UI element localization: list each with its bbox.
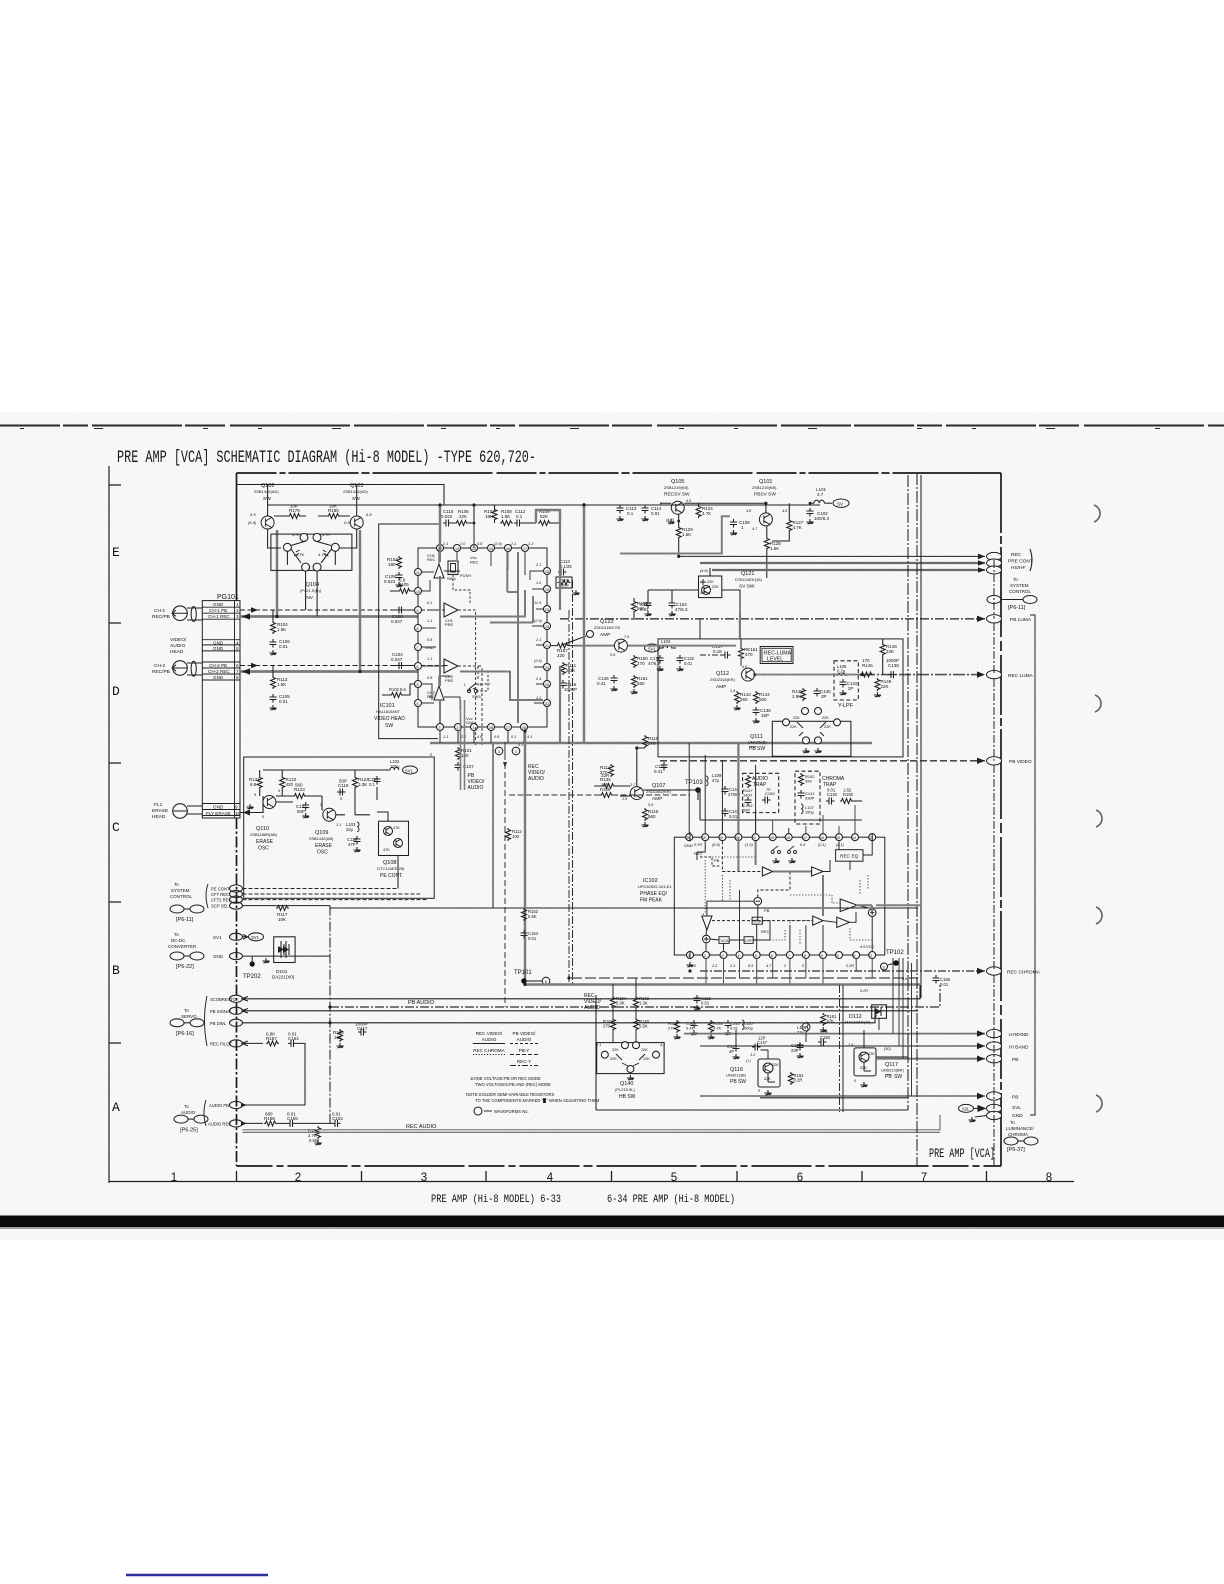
svg-text:3: 3 bbox=[439, 726, 441, 730]
svg-text:19: 19 bbox=[770, 836, 774, 840]
svg-text:CONTROL: CONTROL bbox=[170, 894, 192, 899]
svg-text:1.9: 1.9 bbox=[730, 689, 736, 693]
wire erase internals bbox=[263, 787, 388, 821]
svg-text:2SB1442(AB): 2SB1442(AB) bbox=[309, 836, 334, 841]
svg-text:CFT REC: CFT REC bbox=[211, 892, 229, 897]
transistor Q109 bbox=[309, 808, 336, 855]
head CH-1 input bbox=[152, 606, 202, 622]
amp tri 5 bbox=[837, 917, 850, 927]
svg-text:0.01: 0.01 bbox=[288, 1032, 297, 1037]
svg-text:(+): (+) bbox=[746, 1059, 751, 1063]
svg-text:4.7: 4.7 bbox=[817, 492, 824, 497]
svg-text:4.1: 4.1 bbox=[660, 1043, 665, 1047]
transistor Q116 FET bbox=[726, 1059, 780, 1095]
svg-text:PRE: PRE bbox=[445, 678, 454, 683]
svg-text:UMH9N(B): UMH9N(B) bbox=[748, 741, 767, 745]
resistor R121 bbox=[249, 770, 262, 796]
svg-text:680: 680 bbox=[265, 1112, 273, 1117]
wire REC CHROMA bbox=[700, 970, 985, 972]
svg-text:CH-2 PB: CH-2 PB bbox=[209, 663, 227, 668]
resistor R145 bbox=[792, 688, 806, 701]
svg-text:1.9: 1.9 bbox=[848, 1043, 854, 1047]
svg-text:ERASE: ERASE bbox=[315, 843, 333, 849]
svg-text:(2.9): (2.9) bbox=[494, 542, 503, 546]
svg-text:0.01: 0.01 bbox=[730, 1026, 739, 1031]
wire Q117 to PB term bbox=[876, 1046, 908, 1057]
wire rec audio long bbox=[243, 1115, 941, 1130]
svg-text:SV1: SV1 bbox=[251, 935, 260, 940]
block frame luma bbox=[658, 639, 903, 757]
svg-text:[P6-25]: [P6-25] bbox=[180, 1128, 198, 1134]
svg-text:18: 18 bbox=[786, 836, 790, 840]
svg-text:[P6-11]: [P6-11] bbox=[1008, 605, 1026, 611]
svg-text:3: 3 bbox=[498, 750, 500, 754]
wire gray Q112 to YLPF bbox=[755, 674, 860, 676]
terminal 49 bbox=[230, 995, 243, 1002]
svg-text:REC CHROMA: REC CHROMA bbox=[473, 1048, 505, 1053]
svg-text:R150: R150 bbox=[843, 792, 854, 797]
wire gray top right elbow bbox=[620, 516, 730, 553]
svg-text:470: 470 bbox=[745, 652, 753, 657]
terminal SVL mid bbox=[645, 639, 677, 652]
binding marks bbox=[1094, 505, 1102, 1112]
svg-text:6: 6 bbox=[797, 1172, 803, 1184]
amp tri 3 bbox=[813, 916, 823, 925]
svg-text:9: 9 bbox=[235, 805, 238, 810]
svg-text:3.3: 3.3 bbox=[730, 964, 736, 968]
node sum 3 bbox=[868, 909, 876, 917]
svg-text:C140: C140 bbox=[827, 792, 838, 797]
capacitor C137 bbox=[700, 644, 731, 659]
svg-text:A: A bbox=[112, 1100, 120, 1115]
svg-text:22K: 22K bbox=[886, 649, 894, 654]
svg-text:22K: 22K bbox=[707, 580, 714, 584]
svg-text:4.9: 4.9 bbox=[860, 945, 866, 949]
terminal 15 bbox=[230, 885, 243, 892]
svg-text:4: 4 bbox=[547, 1172, 554, 1184]
svg-text:560: 560 bbox=[759, 697, 767, 702]
connector PG101 bbox=[202, 594, 240, 818]
svg-text:SYSTEM: SYSTEM bbox=[171, 888, 190, 893]
svg-text:1.0: 1.0 bbox=[536, 581, 542, 585]
svg-text:SVL: SVL bbox=[1012, 1105, 1021, 1111]
wire trap block bottom bbox=[700, 790, 862, 820]
svg-text:3.7: 3.7 bbox=[630, 783, 636, 787]
amp tri 2 bbox=[812, 867, 823, 876]
svg-text:0.2R: 0.2R bbox=[846, 964, 854, 968]
svg-text:HB: HB bbox=[749, 746, 757, 752]
svg-text:PUSH: PUSH bbox=[460, 573, 471, 578]
svg-text:L: L bbox=[464, 683, 466, 687]
svg-text:0.047: 0.047 bbox=[391, 657, 403, 662]
capacitor C146 bbox=[727, 1043, 740, 1059]
terminal PB inv bbox=[987, 1055, 1019, 1064]
svg-text:PB-Y: PB-Y bbox=[519, 1048, 530, 1053]
resistor R159 bbox=[632, 598, 649, 620]
resistor R128 bbox=[764, 526, 781, 578]
svg-text:AUDIO: AUDIO bbox=[482, 1037, 497, 1042]
svg-text:VIDEO/: VIDEO/ bbox=[170, 637, 187, 643]
resistor R124b bbox=[353, 770, 370, 796]
svg-text:FM PEAK: FM PEAK bbox=[640, 898, 663, 904]
svg-text:10: 10 bbox=[835, 954, 839, 958]
wire gray drop Q102 to ch1 bus bbox=[276, 530, 278, 617]
svg-text:9: 9 bbox=[821, 954, 823, 958]
svg-text:820: 820 bbox=[540, 514, 548, 519]
svg-text:D: D bbox=[112, 684, 120, 699]
svg-text:16: 16 bbox=[820, 836, 824, 840]
svg-text:4.7K: 4.7K bbox=[296, 552, 305, 557]
terminal HI BAND bbox=[987, 1042, 1029, 1051]
switch pins mid IC102 bbox=[771, 846, 796, 863]
wire gray Q123 emitter run bbox=[575, 645, 614, 647]
capacitor C109 bbox=[384, 572, 403, 587]
IC101 bottom pin row bbox=[437, 716, 528, 731]
svg-text:5.6: 5.6 bbox=[399, 578, 406, 583]
svg-text:0.01: 0.01 bbox=[701, 1001, 710, 1006]
svg-text:0: 0 bbox=[854, 1079, 857, 1083]
wire audio rec bbox=[243, 1122, 264, 1124]
svg-text:B: B bbox=[112, 963, 120, 978]
svg-text:0: 0 bbox=[802, 964, 805, 968]
transistor Q105 bbox=[660, 479, 765, 514]
svg-text:2.1: 2.1 bbox=[535, 563, 541, 567]
resistor R104b bbox=[387, 556, 402, 569]
svg-text:0.9: 0.9 bbox=[800, 843, 806, 847]
wire PB inv bbox=[876, 1058, 985, 1060]
svg-text:TP101: TP101 bbox=[514, 970, 532, 976]
test point TP102 bbox=[881, 950, 905, 970]
svg-text:4.1: 4.1 bbox=[518, 743, 523, 747]
IC101 top pin row bbox=[437, 545, 529, 552]
wire vertical dashdot pair x569 x572 bbox=[568, 610, 570, 985]
svg-text:4.8: 4.8 bbox=[477, 735, 483, 739]
wire right vertical pair bbox=[916, 473, 918, 1166]
svg-text:HA118154NT: HA118154NT bbox=[376, 709, 400, 714]
wire to REC terminal bbox=[679, 556, 985, 570]
svg-text:0.01: 0.01 bbox=[279, 644, 288, 649]
svg-text:4.7K: 4.7K bbox=[713, 1026, 722, 1031]
svg-text:5: 5 bbox=[417, 683, 419, 687]
svg-text:0.8: 0.8 bbox=[427, 638, 433, 642]
resistor R162 bbox=[634, 996, 650, 1009]
svg-text:2P: 2P bbox=[848, 686, 853, 691]
svg-text:10: 10 bbox=[416, 590, 420, 594]
svg-text:HEAD: HEAD bbox=[170, 649, 184, 655]
svg-text:3: 3 bbox=[236, 614, 239, 619]
svg-text:5: 5 bbox=[755, 954, 757, 958]
svg-text:3.3K: 3.3K bbox=[358, 782, 367, 787]
svg-text:0.022: 0.022 bbox=[384, 579, 396, 584]
svg-text:0: 0 bbox=[430, 753, 433, 757]
svg-text:4.7K: 4.7K bbox=[322, 533, 330, 537]
svg-text:To: To bbox=[184, 1008, 189, 1013]
svg-text:0.01: 0.01 bbox=[940, 982, 949, 987]
IC102 bottom pin row bbox=[687, 944, 876, 959]
terminal GND bbox=[230, 953, 243, 960]
svg-text:1.9K: 1.9K bbox=[792, 694, 801, 699]
resistor R112b bbox=[506, 828, 523, 841]
svg-text:27: 27 bbox=[506, 726, 510, 730]
wire HI BAND bbox=[700, 1045, 985, 1047]
transistor Q103 bbox=[343, 483, 372, 529]
svg-text:AMP: AMP bbox=[652, 796, 662, 802]
svg-text:5: 5 bbox=[883, 966, 885, 970]
svg-text:2: 2 bbox=[457, 726, 459, 730]
svg-text:390: 390 bbox=[805, 779, 812, 784]
svg-text:3.2: 3.2 bbox=[750, 1053, 756, 1057]
transistor Q117 FET bbox=[854, 1048, 905, 1087]
gray bus additions bbox=[461, 516, 922, 905]
inductor L101 bbox=[810, 487, 832, 503]
svg-text:1.3: 1.3 bbox=[528, 542, 534, 546]
svg-text:PRE AMP (Hi-8 MODEL) 6-33: PRE AMP (Hi-8 MODEL) 6-33 bbox=[431, 1194, 561, 1206]
wire vertical pair x840 bbox=[839, 985, 841, 1112]
svg-text:15: 15 bbox=[836, 836, 840, 840]
svg-text:TWO VOLTAGES:PB AND (REC) MODE: TWO VOLTAGES:PB AND (REC) MODE bbox=[475, 1082, 551, 1087]
wire right column verticals bbox=[993, 560, 995, 1166]
svg-text:2SD2316/CYB: 2SD2316/CYB bbox=[594, 625, 620, 630]
capacitor C171 bbox=[648, 655, 664, 671]
capacitor C113 bbox=[617, 505, 637, 521]
wire fly erase bbox=[240, 812, 263, 814]
capacitor C120 bbox=[347, 836, 361, 852]
resistor R115 bbox=[643, 735, 659, 748]
resistor R164 bbox=[611, 996, 627, 1009]
wire vertical x493 bbox=[492, 744, 494, 908]
svg-text:DA221(X0): DA221(X0) bbox=[272, 975, 295, 980]
svg-text:8: 8 bbox=[417, 627, 419, 631]
svg-text:560: 560 bbox=[637, 681, 645, 686]
svg-text:5.5K: 5.5K bbox=[528, 914, 537, 919]
resistor R105 bbox=[390, 578, 414, 594]
terminal PB LUMA bbox=[987, 615, 1032, 623]
resistor R117 bbox=[276, 906, 289, 923]
svg-text:AMP: AMP bbox=[600, 632, 610, 638]
wire erase row links bbox=[397, 856, 399, 889]
svg-text:To: To bbox=[174, 882, 179, 887]
label Q104 bbox=[300, 582, 322, 601]
svg-text:56P: 56P bbox=[743, 808, 750, 813]
bottom black bar bbox=[0, 1216, 1224, 1228]
capacitor C100 bbox=[390, 607, 414, 625]
wire Q102 collector drop bbox=[267, 485, 269, 517]
wire SCP SEL long bbox=[330, 907, 918, 909]
svg-text:8.2R: 8.2R bbox=[794, 1078, 803, 1083]
svg-text:REC AUDIO: REC AUDIO bbox=[406, 1124, 437, 1130]
wire bottom to Q116/Q117 bbox=[736, 1018, 879, 1059]
svg-text:PB: PB bbox=[1012, 1057, 1018, 1063]
resistor R148 bbox=[880, 639, 897, 675]
svg-text:SV: SV bbox=[837, 502, 843, 507]
svg-text:CONVERTER: CONVERTER bbox=[168, 944, 197, 949]
resistor R129 bbox=[668, 514, 694, 556]
resistor R151 bbox=[820, 1013, 837, 1032]
capacitor C147 bbox=[752, 1036, 768, 1051]
diode D101 bbox=[272, 937, 295, 980]
amp tri down bbox=[702, 916, 712, 930]
node sum 1 bbox=[754, 897, 762, 905]
svg-text:C: C bbox=[112, 820, 120, 835]
svg-text:0.022: 0.022 bbox=[441, 514, 453, 519]
svg-text:22K: 22K bbox=[459, 514, 467, 519]
svg-text:0.1: 0.1 bbox=[627, 511, 634, 516]
svg-text:TO THE COMPONENTS MARKED "▉" W: TO THE COMPONENTS MARKED "▉" WHEN ADJUST… bbox=[475, 1098, 600, 1103]
svg-text:0.2R: 0.2R bbox=[860, 989, 868, 993]
svg-text:20: 20 bbox=[719, 836, 723, 840]
audio terminal group bbox=[174, 1100, 243, 1134]
resistor R109 bbox=[538, 509, 560, 526]
dc-dc converter terminal group bbox=[168, 932, 330, 970]
svg-text:VIDEO HEAD: VIDEO HEAD bbox=[374, 716, 405, 722]
label PB VIDEO/AUDIO mid bbox=[468, 742, 508, 791]
svg-text:To: To bbox=[184, 1104, 189, 1109]
note waveforms bbox=[474, 1107, 529, 1115]
switch Q111 block bbox=[748, 708, 851, 757]
svg-text:2: 2 bbox=[236, 608, 239, 613]
capacitor C114 bbox=[642, 505, 662, 521]
svg-text:GND: GND bbox=[213, 675, 224, 680]
svg-text:2: 2 bbox=[704, 954, 706, 958]
terminal REC CHROMA bbox=[987, 967, 1041, 976]
svg-text:(PL215 9L): (PL215 9L) bbox=[615, 1087, 635, 1092]
svg-text:UN9212(BR): UN9212(BR) bbox=[881, 1068, 905, 1073]
terminal 52 REC bbox=[987, 549, 1033, 574]
svg-text:PBSV SW: PBSV SW bbox=[754, 492, 776, 498]
switch bridge Q104 box bbox=[271, 533, 352, 571]
svg-text:5.6: 5.6 bbox=[400, 687, 406, 692]
svg-text:0.1: 0.1 bbox=[516, 514, 523, 519]
svg-text:CONTROL: CONTROL bbox=[1009, 589, 1031, 594]
resistor R163 bbox=[603, 1018, 616, 1031]
resistor R108 bbox=[500, 509, 513, 526]
svg-text:5: 5 bbox=[671, 1172, 677, 1184]
diode D112 bbox=[845, 1005, 887, 1025]
svg-text:8: 8 bbox=[1046, 1172, 1052, 1184]
svg-text:C119: C119 bbox=[338, 783, 349, 788]
svg-text:10K: 10K bbox=[329, 504, 337, 509]
svg-text:5.5K: 5.5K bbox=[639, 1024, 648, 1029]
capacitor C132 bbox=[677, 655, 695, 671]
resistor R179 bbox=[274, 504, 306, 519]
svg-text:4.7K: 4.7K bbox=[702, 511, 711, 516]
svg-text:4.7: 4.7 bbox=[752, 527, 758, 531]
svg-text:AUDIO: AUDIO bbox=[517, 1037, 532, 1042]
svg-text:11: 11 bbox=[416, 571, 420, 575]
svg-text:2.1: 2.1 bbox=[535, 638, 541, 642]
svg-text:REC/PB: REC/PB bbox=[152, 614, 170, 620]
svg-text:560: 560 bbox=[295, 783, 303, 788]
svg-text:0.7R: 0.7R bbox=[694, 843, 702, 847]
svg-text:18: 18 bbox=[545, 570, 549, 574]
svg-text:17: 17 bbox=[803, 836, 807, 840]
resistor R116 bbox=[642, 808, 659, 827]
svg-text:[P6-16]: [P6-16] bbox=[176, 1031, 194, 1037]
ruler numbers bbox=[171, 1172, 1052, 1184]
resistor R154 bbox=[788, 1072, 804, 1085]
svg-text:ERASE: ERASE bbox=[256, 839, 274, 845]
svg-text:FLY ERASE: FLY ERASE bbox=[206, 811, 231, 816]
svg-text:UPC62502-101-E1: UPC62502-101-E1 bbox=[638, 884, 673, 889]
terminal HI BAND inv bbox=[987, 1029, 1029, 1038]
box VCA 1 bbox=[752, 917, 762, 924]
svg-text:(2.1): (2.1) bbox=[836, 843, 845, 847]
inductor L108 bbox=[797, 1022, 810, 1035]
svg-text:4.8: 4.8 bbox=[746, 509, 752, 513]
svg-text:S2L: S2L bbox=[962, 1107, 970, 1112]
svg-text:220: 220 bbox=[557, 653, 565, 658]
svg-text:1: 1 bbox=[171, 1172, 177, 1184]
ground IC102 pin1 bbox=[687, 962, 694, 967]
svg-text:4.9: 4.9 bbox=[902, 977, 908, 981]
terminal 19 bbox=[230, 1040, 243, 1047]
svg-text:18K: 18K bbox=[485, 514, 493, 519]
svg-text:1.1: 1.1 bbox=[336, 823, 341, 827]
svg-text:LPF: LPF bbox=[745, 938, 753, 943]
svg-text:2.2: 2.2 bbox=[711, 964, 718, 968]
capacitor C154b bbox=[521, 930, 539, 941]
resistor R185 bbox=[600, 783, 613, 798]
system control terminal group bbox=[170, 882, 243, 923]
wire ch1 pb dashed bbox=[240, 609, 445, 611]
svg-text:22K: 22K bbox=[793, 716, 800, 720]
inductor L103 bbox=[346, 822, 359, 832]
svg-text:10: 10 bbox=[702, 836, 706, 840]
svg-text:25: 25 bbox=[545, 683, 549, 687]
svg-text:8: 8 bbox=[236, 675, 239, 680]
svg-text:10: 10 bbox=[235, 811, 241, 816]
terminal 25 bbox=[230, 1019, 243, 1026]
wire bridge to pg lines bbox=[287, 551, 335, 617]
svg-text:0.1: 0.1 bbox=[511, 735, 516, 739]
resistor R146 bbox=[860, 658, 873, 677]
IC IC101 body bbox=[374, 524, 547, 739]
svg-text:SERVO: SERVO bbox=[181, 1014, 197, 1019]
svg-text:HS/HF: HS/HF bbox=[1011, 565, 1025, 571]
svg-text:CH-1 REC: CH-1 REC bbox=[208, 614, 230, 619]
wire vertical dashed x505 bbox=[504, 745, 506, 1007]
svg-text:SCP SEL: SCP SEL bbox=[211, 904, 229, 909]
svg-text:C117: C117 bbox=[357, 1026, 368, 1031]
svg-text:REC/PB: REC/PB bbox=[152, 669, 170, 675]
resistor R150 bbox=[840, 788, 862, 804]
svg-text:420: 420 bbox=[286, 782, 294, 787]
svg-text:4.8: 4.8 bbox=[477, 542, 483, 546]
svg-text:0.01: 0.01 bbox=[729, 814, 738, 819]
transistor Q101 bbox=[752, 479, 777, 526]
resistor R113 bbox=[271, 666, 288, 690]
svg-text:R158: R158 bbox=[264, 1116, 275, 1121]
svg-text:[P6-22]: [P6-22] bbox=[176, 964, 194, 970]
svg-text:SV1: SV1 bbox=[405, 768, 414, 773]
svg-text:ERASE: ERASE bbox=[152, 808, 168, 814]
resistor R102 bbox=[382, 684, 414, 698]
svg-text:170: 170 bbox=[862, 658, 870, 663]
svg-text:⊜ONE VOLTAGE:PB OR REC MODE: ⊜ONE VOLTAGE:PB OR REC MODE bbox=[470, 1076, 541, 1081]
svg-text:22K: 22K bbox=[822, 716, 829, 720]
svg-text:GND: GND bbox=[684, 843, 693, 848]
capacitor C102 bbox=[807, 502, 830, 524]
wire q103 emitter down bbox=[339, 529, 357, 548]
svg-text:0.41: 0.41 bbox=[654, 769, 663, 774]
terminal SVL with source oval bbox=[959, 1104, 1022, 1112]
capacitor C144 bbox=[722, 786, 741, 797]
svg-text:0.8: 0.8 bbox=[494, 735, 500, 739]
svg-text:7: 7 bbox=[788, 954, 790, 958]
capacitor C138 bbox=[886, 658, 899, 678]
resistor R161 bbox=[631, 675, 649, 694]
svg-text:1.5K: 1.5K bbox=[277, 682, 286, 687]
